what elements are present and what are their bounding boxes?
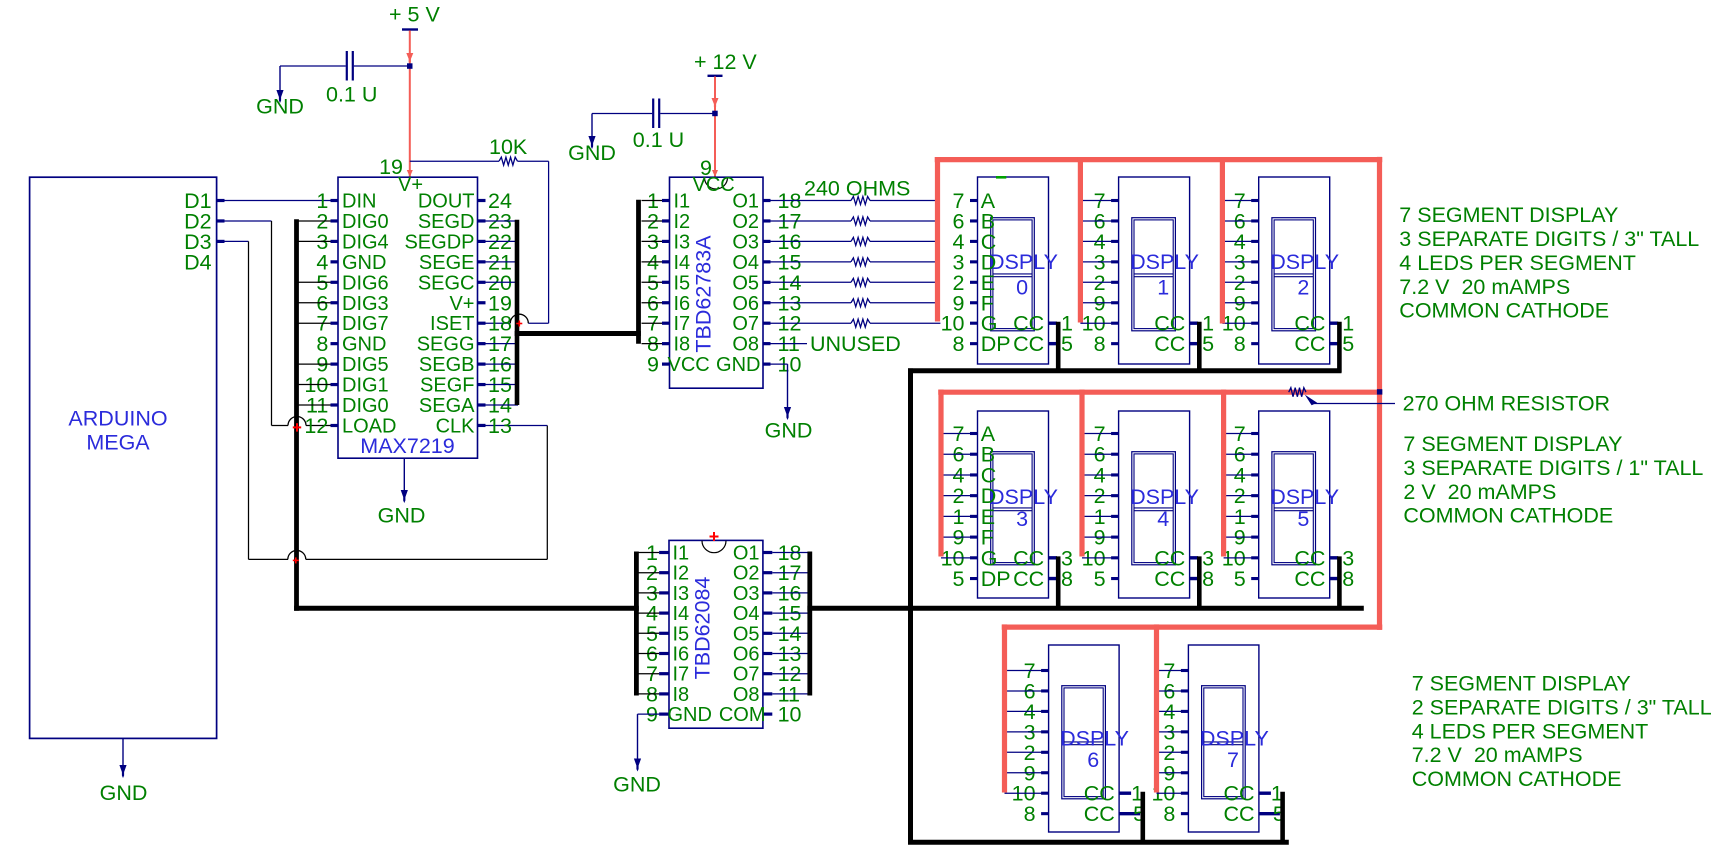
display DSPLY3 digit glyph: [991, 452, 1035, 565]
display DSPLY1 box: [1119, 177, 1190, 364]
display DSPLY4 pin 9: [1111, 536, 1119, 539]
resistor R2 270 ohm: [1289, 388, 1306, 397]
svg-text:SEGG: SEGG: [417, 334, 475, 356]
TBD62084 left pin 8 I8: [659, 692, 669, 695]
display DSPLY7 pin 9: [1181, 771, 1189, 774]
svg-text:8: 8: [1234, 332, 1246, 356]
display DSPLY6 pin 6: [1041, 689, 1049, 692]
MAX7219 right pin 21 SEGE: [478, 260, 486, 263]
display DSPLY3 box: [978, 411, 1049, 598]
svg-text:0: 0: [1016, 276, 1028, 300]
TBD62084 right pin 14 O5: [763, 632, 772, 635]
svg-text:I3: I3: [673, 583, 690, 605]
svg-text:ISET: ISET: [430, 313, 474, 335]
svg-text:DSPLY: DSPLY: [1130, 485, 1199, 509]
display DSPLY7 box: [1188, 645, 1259, 832]
display DSPLY5 pin 6: [1251, 453, 1259, 456]
display DSPLY6 pin 7: [1041, 669, 1049, 672]
MAX7219 left DIG bus bar: [294, 219, 299, 610]
MAX7219 right pin 15 SEGF: [478, 383, 486, 386]
display DSPLY1 pin 4: [1111, 240, 1119, 243]
display DSPLY6 box: [1049, 645, 1120, 832]
display DSPLY7 pin 7: [1181, 669, 1189, 672]
svg-text:I4: I4: [673, 603, 690, 625]
TBD62783A left pin 1 I1: [662, 199, 670, 202]
MAX7219 right SEG bus bar: [515, 220, 520, 405]
svg-text:SEGB: SEGB: [419, 354, 475, 376]
svg-text:COMMON CATHODE: COMMON CATHODE: [1399, 299, 1609, 323]
wire red bar display0: [935, 157, 940, 322]
svg-text:TBD62084: TBD62084: [691, 577, 715, 680]
TBD62783A left pin 6 I6: [662, 301, 670, 304]
MAX7219 left pin 6 DIG3: [331, 301, 339, 304]
display DSPLY7 pin 4: [1181, 710, 1189, 713]
svg-text:O7: O7: [733, 664, 760, 686]
svg-text:I4: I4: [674, 252, 691, 274]
svg-text:SEGD: SEGD: [418, 211, 475, 233]
resistor 240 ohm row 2: [771, 220, 852, 222]
svg-text:10K: 10K: [489, 135, 528, 159]
svg-text:I1: I1: [673, 543, 690, 565]
MAX7219 right pin 24 DOUT: [478, 199, 486, 202]
resistor 240 ohm row 7: [771, 322, 852, 324]
resistor 240 ohm row 4: [771, 261, 852, 263]
net UNUSED O8: [771, 343, 808, 345]
display DSPLY7 pin 3: [1181, 730, 1189, 733]
display DSPLY2 digit glyph: [1272, 218, 1316, 331]
svg-text:5: 5: [1234, 567, 1246, 591]
svg-text:GND: GND: [342, 334, 386, 356]
svg-text:4 LEDS PER SEGMENT: 4 LEDS PER SEGMENT: [1399, 251, 1636, 275]
svg-text:7 SEGMENT DISPLAY: 7 SEGMENT DISPLAY: [1412, 672, 1631, 696]
svg-text:8: 8: [1342, 567, 1354, 591]
svg-text:DSPLY: DSPLY: [1130, 250, 1199, 274]
ground TBD62783A: [787, 364, 789, 407]
svg-text:CC: CC: [1224, 802, 1255, 826]
MAX7219 right pin 14 SEGA: [478, 403, 486, 406]
TBD62783A right pin 15 O4: [763, 260, 771, 263]
svg-text:0.1 U: 0.1 U: [633, 128, 684, 152]
bus horizontal row2 left segment: [294, 606, 639, 611]
MAX7219 right pin 13 CLK: [478, 424, 486, 427]
svg-text:CC: CC: [1154, 332, 1185, 356]
resistor 240 ohm row 6: [771, 302, 852, 304]
display DSPLY1 digit glyph: [1132, 218, 1176, 331]
svg-text:4 LEDS PER SEGMENT: 4 LEDS PER SEGMENT: [1412, 719, 1649, 743]
TBD62783A left pin 8 I8: [662, 342, 670, 345]
TBD62084 right pin 17 O2: [763, 571, 772, 574]
display DSPLY2 pin 7: [1251, 199, 1259, 202]
TBD62783A right pin 18 O1: [763, 199, 771, 202]
display DSPLY7 digit glyph: [1202, 686, 1246, 799]
display DSPLY2 pin 2: [1251, 281, 1259, 284]
svg-text:CC: CC: [1013, 332, 1044, 356]
svg-text:CLK: CLK: [436, 415, 476, 437]
svg-text:O4: O4: [732, 252, 759, 274]
svg-text:3 SEPARATE DIGITS / 3" TALL: 3 SEPARATE DIGITS / 3" TALL: [1399, 227, 1699, 251]
MAX7219 right pin 17 SEGG: [478, 342, 486, 345]
svg-text:DIG1: DIG1: [342, 375, 389, 397]
svg-text:CC: CC: [1013, 567, 1044, 591]
svg-text:5: 5: [1094, 567, 1106, 591]
wire 240 ohm row 4 to display red bar: [870, 261, 935, 263]
display DSPLY6 pin 10: [1041, 792, 1049, 795]
svg-text:VCC: VCC: [668, 354, 710, 376]
svg-text:GND: GND: [378, 503, 426, 527]
wire CC drop row1: [1337, 322, 1342, 373]
display DSPLY1 pin 6: [1111, 219, 1119, 222]
wire D1 to MAX7219 DIN pin 1: [217, 199, 225, 202]
svg-text:I8: I8: [673, 684, 690, 706]
display DSPLY0 box: [978, 177, 1049, 364]
svg-text:DSPLY: DSPLY: [1200, 726, 1269, 750]
svg-text:O2: O2: [733, 563, 760, 585]
display DSPLY6 pin 4: [1041, 710, 1049, 713]
bus horizontal row3 CC: [908, 840, 1289, 845]
bus segment ISET row to TBD62783A: [515, 331, 641, 336]
svg-text:UNUSED: UNUSED: [810, 332, 901, 356]
MAX7219 left pin 5 DIG6: [331, 281, 339, 284]
svg-text:GND: GND: [765, 419, 813, 443]
display DSPLY2 box: [1259, 177, 1330, 364]
display DSPLY6 pin 8: [1041, 812, 1049, 815]
TBD62084 left pin 6 I6: [659, 652, 669, 655]
TBD62084 notch: [702, 541, 726, 553]
svg-text:5: 5: [1297, 507, 1309, 531]
display DSPLY1 pin 9: [1111, 301, 1119, 304]
svg-text:VCC: VCC: [693, 174, 735, 196]
MAX7219 left pin 8 GND: [331, 342, 339, 345]
wire 240 ohm row 5 to display red bar: [870, 281, 935, 283]
TBD62783A right pin 14 O5: [763, 281, 771, 284]
MAX7219 left pin 9 DIG5: [331, 363, 339, 366]
wire D2 to MAX7219 LOAD pin 12: [217, 219, 225, 222]
display DSPLY5 pin 5: [1251, 577, 1259, 580]
TBD62084 right pin 16 O3: [763, 591, 772, 594]
TBD62783A input bus bar: [636, 200, 641, 344]
TBD62783A left pin 4 I4: [662, 260, 670, 263]
svg-text:O5: O5: [733, 623, 760, 645]
svg-text:DOUT: DOUT: [418, 191, 475, 213]
wire CC drop row1: [1056, 322, 1061, 373]
TBD62084 pin 10 COM: [763, 712, 772, 715]
display DSPLY6 pin 9: [1041, 771, 1049, 774]
wire 240 ohm row 1 to display red bar: [870, 200, 935, 202]
wire 240 ohm row 2 to display red bar: [870, 220, 935, 222]
display DSPLY2 pin 8: [1251, 342, 1259, 345]
display DSPLY3 pin 2: [970, 494, 978, 497]
junction +12V cap: [712, 111, 718, 117]
svg-text:7: 7: [1227, 748, 1239, 772]
display DSPLY3 pin 5: [970, 577, 978, 580]
ground cap C1: [279, 66, 281, 90]
display DSPLY3 pin 10: [970, 556, 978, 559]
display DSPLY7 pin 6: [1181, 689, 1189, 692]
wire CC drop row1: [1197, 322, 1202, 373]
TBD62783A right pin 11 O8: [763, 342, 771, 345]
wire red row2 horizontal: [938, 390, 1382, 395]
wire red row3 horizontal: [1002, 624, 1383, 629]
TBD62084 right pin 12 O7: [763, 672, 772, 675]
svg-text:DIG4: DIG4: [342, 231, 389, 253]
svg-text:5: 5: [1202, 332, 1214, 356]
display DSPLY3 pin 6: [970, 453, 978, 456]
display DSPLY4 pin 7: [1111, 432, 1119, 435]
svg-text:SEGC: SEGC: [418, 272, 475, 294]
display DSPLY7 pin 8: [1181, 812, 1189, 815]
svg-text:2 SEPARATE DIGITS / 3" TALL: 2 SEPARATE DIGITS / 3" TALL: [1412, 695, 1712, 719]
svg-text:DIG0: DIG0: [342, 211, 389, 233]
svg-text:DSPLY: DSPLY: [1270, 250, 1339, 274]
resistor 240 ohm row 5: [771, 281, 852, 283]
svg-text:DSPLY: DSPLY: [1060, 726, 1129, 750]
wire red bar display5: [1221, 390, 1226, 557]
TBD62783A right pin 12 O7: [763, 322, 771, 325]
svg-text:I5: I5: [674, 272, 691, 294]
display DSPLY3 pin 1: [970, 515, 978, 518]
display DSPLY0 pin 3: [970, 260, 978, 263]
TBD62783A left pin 2 I2: [662, 219, 670, 222]
svg-text:SEGDP: SEGDP: [404, 231, 474, 253]
display DSPLY0 pin 2: [970, 281, 978, 284]
svg-text:O4: O4: [733, 603, 760, 625]
MAX7219 right pin 22 SEGDP: [478, 240, 486, 243]
MAX7219 left pin 3 DIG4: [331, 240, 339, 243]
display DSPLY4 digit glyph: [1132, 452, 1176, 565]
svg-text:I5: I5: [673, 623, 690, 645]
svg-text:8: 8: [1061, 567, 1073, 591]
TBD62783A right pin 13 O6: [763, 301, 771, 304]
wire red bar display3: [938, 390, 943, 557]
wire red bar display6: [1002, 624, 1007, 792]
svg-text:7.2 V 20 mAMPS: 7.2 V 20 mAMPS: [1399, 275, 1570, 299]
svg-text:DP: DP: [981, 567, 1011, 591]
svg-text:9: 9: [647, 353, 659, 377]
svg-text:240 OHMS: 240 OHMS: [804, 177, 910, 201]
junction red row2 right: [1377, 389, 1382, 394]
svg-text:DSPLY: DSPLY: [1270, 485, 1339, 509]
MAX7219 left pin 11 DIG0: [331, 403, 339, 406]
wire hop arc at LOAD pin 12: [288, 417, 306, 426]
svg-text:GND: GND: [668, 704, 712, 726]
svg-text:ARDUINO: ARDUINO: [68, 407, 167, 431]
display DSPLY7 pin 10: [1181, 792, 1189, 795]
pointer 270 ohm: [1314, 403, 1395, 405]
display DSPLY0 pin 6: [970, 219, 978, 222]
svg-text:CC: CC: [1154, 567, 1185, 591]
MAX7219 right pin 19 V+: [478, 301, 486, 304]
display DSPLY2 pin 6: [1251, 219, 1259, 222]
svg-text:SEGF: SEGF: [420, 375, 474, 397]
wire 240 ohm row 6 to display red bar: [870, 302, 935, 304]
display DSPLY5 pin 1: [1251, 515, 1259, 518]
svg-text:5: 5: [1342, 332, 1354, 356]
display DSPLY6 pin 2: [1041, 751, 1049, 754]
display DSPLY5 pin 10: [1251, 556, 1259, 559]
svg-text:O3: O3: [732, 231, 759, 253]
svg-text:2: 2: [1297, 276, 1309, 300]
IC U2 MAX7219 box: [338, 177, 478, 458]
svg-text:GND: GND: [100, 781, 148, 805]
svg-text:4: 4: [1157, 507, 1169, 531]
svg-text:+ 12 V: + 12 V: [694, 50, 757, 74]
svg-text:10: 10: [778, 703, 802, 727]
svg-text:3: 3: [1016, 507, 1028, 531]
svg-text:DIG3: DIG3: [342, 293, 389, 315]
TBD62783A notch: [705, 178, 728, 190]
MAX7219 left pin 2 DIG0: [331, 219, 339, 222]
TBD62084 right pin 11 O8: [763, 692, 772, 695]
svg-text:I7: I7: [673, 664, 690, 686]
svg-text:270 OHM RESISTOR: 270 OHM RESISTOR: [1403, 392, 1611, 416]
svg-text:O1: O1: [732, 191, 759, 213]
svg-text:DIN: DIN: [342, 191, 376, 213]
TBD62084 left pin 5 I5: [659, 632, 669, 635]
svg-text:I3: I3: [674, 231, 691, 253]
display DSPLY7 pin 2: [1181, 751, 1189, 754]
svg-text:8: 8: [1202, 567, 1214, 591]
display DSPLY2 pin 3: [1251, 260, 1259, 263]
MAX7219 right pin 18 ISET: [478, 322, 486, 325]
svg-text:0.1 U: 0.1 U: [326, 83, 377, 107]
display DSPLY4 pin 4: [1111, 473, 1119, 476]
MAX7219 left pin 10 DIG1: [331, 383, 339, 386]
MAX7219 right pin 23 SEGD: [478, 219, 486, 222]
svg-text:GND: GND: [613, 773, 661, 797]
resistor 240 ohm row 3: [771, 240, 852, 242]
ground arduino: [122, 738, 124, 766]
capacitor C1 0.1 U: [280, 65, 346, 67]
svg-text:1: 1: [1157, 276, 1169, 300]
wire red bar display7: [1154, 624, 1159, 792]
svg-text:6: 6: [1087, 748, 1099, 772]
display DSPLY3 pin 4: [970, 473, 978, 476]
svg-text:I7: I7: [674, 313, 691, 335]
svg-text:CC: CC: [1084, 802, 1115, 826]
display DSPLY0 digit glyph: [991, 218, 1035, 331]
svg-text:8: 8: [1163, 802, 1175, 826]
display DSPLY2 pin 9: [1251, 301, 1259, 304]
svg-text:+ 5 V: + 5 V: [389, 3, 440, 27]
svg-text:SEGA: SEGA: [419, 395, 475, 417]
TBD62084 output bus bar: [807, 552, 812, 696]
display DSPLY5 pin 4: [1251, 473, 1259, 476]
svg-text:TBD62783A: TBD62783A: [692, 235, 716, 353]
svg-text:I8: I8: [674, 334, 691, 356]
display DSPLY0 pin 7: [970, 199, 978, 202]
wire hop arc at ISET pin 18: [510, 314, 528, 323]
display DSPLY4 box: [1119, 411, 1190, 598]
TBD62783A right pin 17 O2: [763, 219, 771, 222]
svg-text:3 SEPARATE DIGITS / 1" TALL: 3 SEPARATE DIGITS / 1" TALL: [1403, 456, 1703, 480]
TBD62783A left pin 5 I5: [662, 281, 670, 284]
TBD62783A right pin 16 O3: [763, 240, 771, 243]
display DSPLY0 pin 4: [970, 240, 978, 243]
svg-text:I6: I6: [674, 293, 691, 315]
display DSPLY4 pin 10: [1111, 556, 1119, 559]
bus horizontal row2 right segment: [807, 606, 1363, 611]
ground MAX7219: [403, 458, 405, 490]
MAX7219 right pin 20 SEGC: [478, 281, 486, 284]
display DSPLY4 pin 1: [1111, 515, 1119, 518]
svg-text:DIG6: DIG6: [342, 272, 389, 294]
svg-text:GND: GND: [342, 252, 386, 274]
wire CC drop row2: [1056, 556, 1061, 610]
display DSPLY1 pin 10: [1111, 322, 1119, 325]
display DSPLY4 pin 5: [1111, 577, 1119, 580]
wire red bar display4: [1079, 390, 1084, 557]
ground cap C2: [591, 114, 593, 137]
svg-text:GND: GND: [716, 354, 760, 376]
display DSPLY1 pin 8: [1111, 342, 1119, 345]
ground TBD62084: [638, 713, 660, 715]
svg-text:7.2 V 20 mAMPS: 7.2 V 20 mAMPS: [1412, 743, 1583, 767]
svg-text:MAX7219: MAX7219: [360, 434, 454, 458]
svg-text:8: 8: [1094, 332, 1106, 356]
svg-text:O8: O8: [732, 334, 759, 356]
display DSPLY5 pin 7: [1251, 432, 1259, 435]
display DSPLY1 pin 2: [1111, 281, 1119, 284]
svg-text:DP: DP: [981, 332, 1011, 356]
TBD62084 input bus bar: [634, 552, 639, 696]
wire 10K to ISET: [548, 161, 550, 323]
svg-text:DIG7: DIG7: [342, 313, 389, 335]
svg-text:O6: O6: [733, 644, 760, 666]
IC U3 TBD62783A box: [670, 177, 764, 388]
wire 240 ohm row 7 to display red bar: [870, 322, 940, 324]
bus vertical main: [908, 368, 913, 844]
display DSPLY2 pin 4: [1251, 240, 1259, 243]
wire red bar display1: [1078, 157, 1083, 323]
wire CC drop row2: [1197, 556, 1202, 610]
wire CC drop row2: [1337, 556, 1342, 610]
svg-text:COMMON CATHODE: COMMON CATHODE: [1412, 767, 1622, 791]
svg-text:O2: O2: [732, 211, 759, 233]
net highlight tick display0: [996, 176, 1006, 179]
wire red bar display2: [1220, 157, 1225, 324]
display DSPLY5 pin 2: [1251, 494, 1259, 497]
svg-text:MEGA: MEGA: [86, 431, 150, 455]
TBD62084 right pin 18 O1: [763, 551, 772, 554]
svg-text:7 SEGMENT DISPLAY: 7 SEGMENT DISPLAY: [1403, 432, 1622, 456]
TBD62084 pin 9 GND: [659, 712, 669, 715]
svg-text:13: 13: [488, 414, 512, 438]
display DSPLY5 pin 9: [1251, 536, 1259, 539]
MAX7219 right pin 16 SEGB: [478, 363, 486, 366]
IC U1 ARDUINO MEGA box: [30, 177, 217, 738]
TBD62783A left pin 7 I7: [662, 322, 670, 325]
wire red row1 horizontal: [935, 157, 1383, 162]
svg-text:5: 5: [1061, 332, 1073, 356]
display DSPLY1 pin 7: [1111, 199, 1119, 202]
MAX7219 left pin 4 GND: [331, 260, 339, 263]
svg-text:I2: I2: [674, 211, 691, 233]
display DSPLY3 pin 9: [970, 536, 978, 539]
svg-text:V+: V+: [449, 293, 474, 315]
display DSPLY2 pin 10: [1251, 322, 1259, 325]
display DSPLY6 pin 3: [1041, 730, 1049, 733]
svg-text:COM: COM: [719, 704, 766, 726]
svg-text:O7: O7: [732, 313, 759, 335]
TBD62783A left pin 3 I3: [662, 240, 670, 243]
display DSPLY0 pin 9: [970, 301, 978, 304]
svg-text:I1: I1: [674, 191, 691, 213]
svg-text:DSPLY: DSPLY: [989, 250, 1058, 274]
svg-text:DIG5: DIG5: [342, 354, 389, 376]
TBD62084 left pin 2 I2: [659, 571, 669, 574]
svg-text:2 V 20 mAMPS: 2 V 20 mAMPS: [1403, 480, 1556, 504]
display DSPLY0 pin 8: [970, 342, 978, 345]
